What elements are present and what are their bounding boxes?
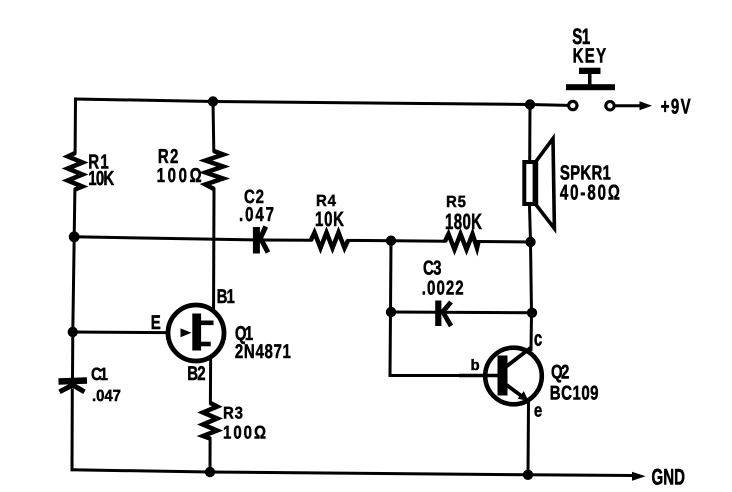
svg-text:C1: C1 [91,365,108,385]
svg-text:e: e [534,400,542,421]
svg-text:10K: 10K [88,168,114,191]
svg-text:Q2: Q2 [551,361,569,383]
svg-text:c: c [534,327,542,351]
svg-text:.047: .047 [92,387,121,405]
svg-text:180K: 180K [445,210,482,235]
svg-text:B2: B2 [187,363,205,385]
svg-text:100Ω: 100Ω [157,165,202,188]
svg-text:.047: .047 [239,204,274,227]
svg-text:B1: B1 [217,286,235,308]
svg-text:10K: 10K [315,208,344,231]
svg-text:E: E [151,312,161,334]
svg-text:GND: GND [652,465,686,491]
svg-text:2N4871: 2N4871 [235,341,291,363]
svg-text:+9V: +9V [661,95,691,119]
svg-text:100Ω: 100Ω [223,423,266,444]
svg-text:R3: R3 [223,404,243,423]
svg-text:b: b [471,357,480,374]
svg-text:R5: R5 [446,193,466,211]
svg-text:.0022: .0022 [422,277,464,300]
svg-text:BC109: BC109 [550,382,599,404]
svg-text:KEY: KEY [573,44,607,67]
